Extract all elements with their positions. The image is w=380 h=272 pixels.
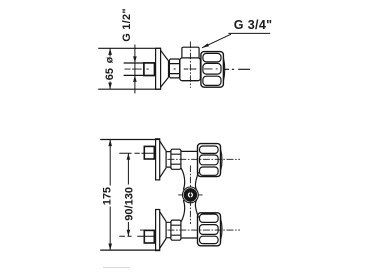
lower cone-to-ring connector <box>166 222 171 238</box>
nut facet middle <box>203 63 221 74</box>
supply pipe top line <box>124 62 144 64</box>
arrow down tip (175) <box>108 244 112 251</box>
lower nut facet bottom <box>200 236 219 243</box>
lower wall flange disc <box>156 210 160 251</box>
knurled ring <box>169 59 179 78</box>
leader line to G 3/4 <box>202 33 270 47</box>
upper nut hex point bulge <box>221 149 223 171</box>
lower union nut <box>198 213 221 246</box>
horizontal centerline dashes in body <box>174 68 197 70</box>
upper connector cylinder top <box>181 150 198 152</box>
nut facet bottom <box>203 76 221 85</box>
arrow down tip (90/130) <box>127 230 131 237</box>
svg-text:175: 175 <box>101 187 113 205</box>
arrow up tip (175) <box>108 140 112 147</box>
svg-text:90/130: 90/130 <box>123 187 135 221</box>
lower connector cylinder bottom <box>181 237 198 239</box>
knob horizontal centerline ticks <box>178 194 202 196</box>
upper nut facet top <box>200 146 219 153</box>
extension line bottom (flange bottom, 65 dim) <box>98 88 161 90</box>
upper valve centerline (dash-dot) <box>168 158 241 160</box>
valve body <box>180 58 201 81</box>
tick line lower (90/130 dim) <box>119 235 154 237</box>
arrow up tip (65 dim) <box>108 48 112 55</box>
wall flange disc <box>156 48 161 89</box>
upper knurled ring <box>171 149 181 169</box>
upper threaded stub <box>144 146 154 159</box>
centerline across union nut <box>204 68 218 70</box>
dimension line 175 <box>109 140 111 251</box>
diverter knob center dot <box>189 194 192 197</box>
vertical centerline of assembly (dash-dot) <box>189 166 191 225</box>
bridge left edge lower <box>181 200 185 222</box>
valve bonnet <box>182 47 199 58</box>
lower ring bands <box>171 225 181 235</box>
centerline right of nut <box>224 68 250 70</box>
diverter knob dark ring <box>186 190 195 199</box>
union nut (top view drawing) <box>201 52 224 88</box>
lower nut facet middle <box>200 225 219 235</box>
upper ring bands <box>171 154 181 164</box>
nut facet top <box>203 53 221 62</box>
bridge left edge upper <box>181 168 185 190</box>
lower valve centerline (dash-dot) <box>140 229 240 231</box>
svg-text:65: 65 <box>104 68 116 80</box>
supply pipe centerline <box>125 68 149 70</box>
lower nut facet top <box>200 214 219 222</box>
dimension line ø65 <box>109 48 111 89</box>
arrow up tip (90/130) <box>127 153 131 160</box>
G 1/2 arrow lower (points up to pipe bottom) <box>133 76 137 82</box>
lower flange cone <box>160 212 166 249</box>
G 1/2 annotation line <box>134 45 136 94</box>
lower threaded stub <box>144 230 154 243</box>
arrow down tip (65 dim) <box>108 83 112 90</box>
lower nut hex point bulge <box>221 218 223 240</box>
threaded stub <box>144 63 155 76</box>
vertical centerline of valve body <box>189 42 191 88</box>
bridge right edge lower <box>195 200 198 218</box>
extension line top (175 dim) <box>100 139 160 141</box>
upper nut facet bottom <box>200 167 219 175</box>
svg-text:ø: ø <box>104 56 116 63</box>
tick line upper (90/130 dim) <box>119 152 154 154</box>
supply pipe bottom line <box>124 74 144 76</box>
upper union nut <box>198 144 221 177</box>
bridge right edge upper <box>195 172 198 190</box>
diverter knob outer circle <box>183 187 199 203</box>
G 1/2 arrow upper (points down to pipe top) <box>133 56 137 62</box>
leader arrowhead <box>202 43 210 48</box>
dimension line 90/130 <box>127 153 129 236</box>
extension line top (flange top, 65 dim) <box>98 47 161 49</box>
union nut hex point bulge <box>223 58 224 82</box>
knurled ring bands <box>169 64 179 74</box>
upper cone-to-ring connector <box>166 152 171 168</box>
lower knurled ring <box>171 220 181 240</box>
svg-text:G 1/2": G 1/2" <box>121 8 133 42</box>
svg-text:G 3/4": G 3/4" <box>234 18 273 32</box>
upper wall flange disc <box>156 139 160 180</box>
flange cone <box>161 50 169 87</box>
upper nut facet middle <box>200 155 219 165</box>
upper flange cone <box>160 141 166 178</box>
extension line bottom (175 dim) <box>100 249 160 251</box>
faint artifact dash bottom-left <box>103 267 130 269</box>
